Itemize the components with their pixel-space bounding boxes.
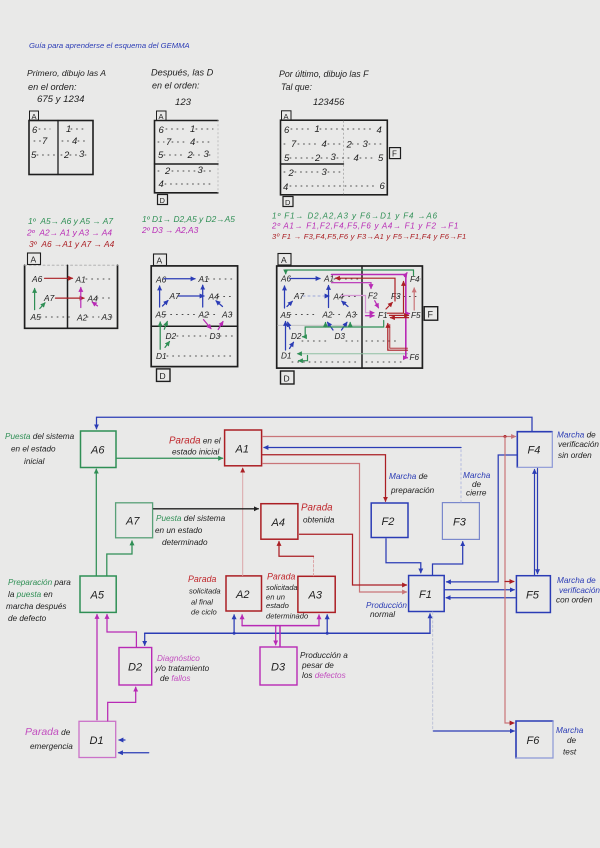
- wire red A3 to A4 vertical (faint): [313, 556, 315, 576]
- mini3 red wire F6 to F1: [388, 324, 408, 351]
- wire red A1 to F1 (light): [263, 464, 407, 593]
- mini diagram F tag F: [424, 307, 438, 321]
- mini3 magenta wire A1 to F6 (long vertical): [332, 275, 408, 358]
- svg-text:en el estado: en el estado: [11, 445, 56, 454]
- svg-text:A3: A3: [308, 590, 323, 602]
- svg-text:F: F: [392, 149, 397, 158]
- svg-text:F4: F4: [410, 275, 420, 284]
- mini diagram D tag A: [154, 254, 167, 266]
- svg-text:2º A2→ A1 y A3 → A4: 2º A2→ A1 y A3 → A4: [26, 228, 112, 238]
- svg-text:4: 4: [190, 137, 195, 148]
- svg-text:A2: A2: [235, 589, 249, 601]
- svg-text:3: 3: [79, 149, 85, 160]
- box F1: [409, 576, 445, 612]
- svg-text:estado inicial: estado inicial: [172, 448, 220, 457]
- svg-text:6: 6: [32, 125, 38, 136]
- svg-text:A4: A4: [208, 292, 220, 302]
- svg-text:3: 3: [331, 152, 337, 163]
- wire green A5 to A7: [107, 541, 132, 576]
- svg-text:solicitada: solicitada: [266, 583, 298, 592]
- svg-text:2: 2: [346, 140, 353, 151]
- wire blue F4 to F5: [537, 469, 539, 574]
- svg-text:A2: A2: [322, 311, 333, 320]
- mini2 dots: [165, 279, 234, 356]
- mini3 magenta branch to F5: [406, 313, 410, 315]
- wire blue to F6: [434, 730, 515, 732]
- mini3 magenta wire A4 to F1 (light): [341, 296, 374, 313]
- mini3 blue arrow A5 to A7: [287, 301, 292, 306]
- wire blue F3 to A1 faint vertical: [460, 448, 462, 503]
- svg-text:Marcha: Marcha: [556, 726, 584, 735]
- box D1: [79, 721, 116, 757]
- svg-text:675 y 1234: 675 y 1234: [37, 94, 84, 105]
- wire green A5 to A6: [95, 469, 97, 575]
- svg-text:F: F: [428, 310, 434, 320]
- svg-text:D2: D2: [128, 662, 142, 674]
- svg-text:A: A: [32, 112, 37, 121]
- svg-text:estado: estado: [266, 601, 289, 610]
- svg-text:Marcha de: Marcha de: [557, 431, 596, 440]
- svg-text:1: 1: [315, 124, 320, 135]
- svg-text:4: 4: [354, 153, 359, 164]
- wire magenta D1 to D2: [108, 687, 136, 721]
- svg-text:Después, las D: Después, las D: [151, 68, 214, 78]
- mini diagram A tag: [28, 253, 41, 265]
- mini3 blue arrow A5 to A6: [284, 286, 286, 308]
- mini2 magenta arrow D3 to A3: [218, 322, 223, 330]
- svg-text:A6: A6: [31, 274, 43, 284]
- svg-text:Marcha: Marcha: [463, 471, 491, 480]
- svg-text:4: 4: [159, 179, 164, 190]
- svg-text:A3: A3: [345, 311, 356, 320]
- svg-text:cierre: cierre: [466, 489, 487, 498]
- svg-text:2: 2: [63, 150, 70, 161]
- mini3 red wire F6 to F1 double stroke: [390, 325, 408, 349]
- mini3 blue arrow D2 to A5: [288, 322, 290, 329]
- mini3 blue arrow D3 to A2: [328, 322, 334, 330]
- svg-text:4: 4: [283, 182, 288, 193]
- svg-text:1: 1: [190, 124, 195, 135]
- mini3 blue arrow A6 to A1: [290, 278, 320, 280]
- mini2 green arrow D1 to A5: [159, 322, 161, 349]
- mini3 green branch F1 to A3: [349, 323, 351, 328]
- svg-text:F1: F1: [419, 589, 432, 601]
- svg-text:A6: A6: [90, 445, 105, 457]
- mini3 blue arrow D3 to A3: [342, 322, 348, 330]
- svg-text:A: A: [284, 112, 289, 121]
- svg-text:D: D: [160, 371, 166, 381]
- wire red A4 to F1: [300, 534, 407, 585]
- svg-text:F3: F3: [453, 517, 467, 529]
- mini1 magenta arrow A3 to A4: [92, 302, 97, 306]
- svg-text:1º F1→ D2,A2,A3 y F6→D1 y F4 →: 1º F1→ D2,A2,A3 y F6→D1 y F4 →A6: [272, 212, 438, 221]
- box A5: [80, 576, 116, 612]
- svg-text:4: 4: [377, 125, 382, 136]
- svg-text:A2: A2: [198, 310, 210, 320]
- wire magenta into D3: [275, 626, 277, 645]
- wire blue bus to D2: [144, 633, 146, 645]
- wire black A7 to A4: [154, 508, 259, 510]
- mini3 magenta arrow F2 to F1: [375, 301, 379, 308]
- mini1 green arrow A5 to A6: [34, 289, 36, 310]
- svg-text:Marcha de: Marcha de: [557, 576, 596, 585]
- svg-text:2: 2: [314, 153, 321, 164]
- svg-text:6: 6: [380, 181, 386, 192]
- svg-text:de defecto: de defecto: [8, 614, 47, 623]
- box A6: [81, 431, 117, 468]
- wire blue bus to A3: [326, 615, 328, 633]
- svg-text:F6: F6: [527, 735, 541, 747]
- svg-text:A: A: [281, 255, 287, 265]
- svg-text:5: 5: [284, 153, 290, 164]
- number box 3 frame: [281, 120, 388, 195]
- svg-text:F2: F2: [382, 516, 395, 528]
- svg-text:F3: F3: [391, 292, 401, 301]
- mini2 blue arrow A7 to A4: [179, 295, 205, 297]
- svg-text:la puesta en: la puesta en: [8, 590, 53, 599]
- mini diagram D tag D: [157, 369, 171, 382]
- svg-text:normal: normal: [370, 610, 395, 619]
- svg-text:marcha después: marcha después: [6, 602, 67, 611]
- mini3 blue arrow D1 to A5: [285, 322, 287, 351]
- mini3 green hook to D1: [299, 356, 308, 361]
- mini2 green arrow D2 to A5: [164, 322, 167, 330]
- svg-text:A5: A5: [280, 311, 291, 320]
- wire blue lower bus horizontal: [145, 632, 430, 634]
- svg-text:D1: D1: [281, 352, 291, 361]
- svg-text:emergencia: emergencia: [30, 742, 73, 751]
- svg-text:5: 5: [158, 150, 164, 161]
- svg-text:D3: D3: [271, 662, 286, 674]
- svg-text:A7: A7: [293, 292, 304, 301]
- mini3 magenta short arrow to F1: [366, 315, 375, 317]
- svg-text:de ciclo: de ciclo: [191, 608, 217, 617]
- number box 1 divider: [57, 121, 59, 175]
- box F2: [371, 503, 408, 538]
- svg-text:en el orden:: en el orden:: [28, 82, 77, 92]
- svg-text:D3: D3: [210, 331, 221, 341]
- svg-text:7: 7: [291, 139, 297, 150]
- wire blue bus to F1: [429, 614, 431, 633]
- svg-text:A7: A7: [125, 516, 140, 528]
- wire red branch to F5: [505, 581, 514, 583]
- svg-text:A1: A1: [198, 274, 209, 284]
- mini3 blue arrow A7 to A4 (faint): [303, 295, 329, 297]
- svg-text:obtenida: obtenida: [303, 516, 335, 525]
- svg-text:D: D: [160, 196, 166, 205]
- svg-text:F1: F1: [378, 311, 388, 320]
- svg-text:D2: D2: [291, 332, 302, 341]
- mini3 blue arrow D1 to D2: [290, 342, 294, 348]
- mini3 red wire F5 to F4 (light): [413, 288, 415, 310]
- svg-text:2: 2: [187, 150, 194, 161]
- wire red A3 to A4: [279, 542, 314, 557]
- number box 2 tag A: [157, 111, 167, 121]
- mini1 dots: [40, 279, 114, 317]
- mini diagram F tag A: [278, 254, 291, 266]
- wire blue F2 to F1: [386, 539, 421, 573]
- svg-text:determinado: determinado: [266, 612, 308, 621]
- mini3 red arrow F1 to F3: [386, 303, 392, 310]
- box2 dot rows: [158, 129, 214, 184]
- mini3 magenta wire A1 to F2: [332, 283, 372, 289]
- svg-text:test: test: [563, 748, 577, 757]
- mini3 blue arrow A2 to A1: [328, 286, 330, 308]
- wire green A6 to A1: [117, 457, 223, 459]
- svg-text:Parada: Parada: [267, 572, 295, 582]
- svg-text:6: 6: [159, 125, 165, 136]
- mini1 red arrow A6 to A1: [45, 277, 73, 279]
- svg-text:A2: A2: [76, 313, 88, 323]
- svg-text:F2: F2: [368, 292, 378, 301]
- mini diagram F frame: [277, 266, 423, 368]
- mini3 faint row divider: [278, 324, 362, 326]
- svg-text:pesar de: pesar de: [301, 661, 334, 670]
- wire blue F3 to A1 horizontal: [264, 447, 461, 449]
- mini diagram A divider: [67, 265, 69, 328]
- mini3 magenta arrow tip near F4: [405, 273, 408, 277]
- wire magenta to A2: [241, 615, 243, 626]
- svg-text:Parada: Parada: [188, 574, 216, 584]
- wire blue stub into D1: [119, 739, 125, 741]
- svg-text:3: 3: [363, 139, 369, 150]
- wire blue F5 to F4: [534, 470, 536, 575]
- svg-text:F5: F5: [411, 311, 421, 320]
- wire magenta D2 to A5: [107, 615, 136, 647]
- mini3 blue arrow A3 to A4: [342, 301, 348, 306]
- wire faint F1 to F6 vertical: [432, 612, 434, 731]
- svg-text:D: D: [285, 198, 291, 207]
- svg-text:solicitada: solicitada: [189, 587, 221, 596]
- svg-text:7: 7: [42, 136, 48, 147]
- mini diagram F tag D: [281, 371, 295, 384]
- box A4: [261, 504, 298, 540]
- junction dot bus A2: [233, 632, 236, 635]
- svg-text:5: 5: [31, 150, 37, 161]
- svg-text:D2: D2: [166, 331, 177, 341]
- mini2 blue arrow A6 to A1: [164, 278, 195, 280]
- svg-text:A5: A5: [155, 310, 167, 320]
- wire red A2 to A1 (faint): [242, 468, 244, 575]
- mini diagram A frame: [25, 265, 118, 328]
- svg-text:determinado: determinado: [162, 538, 208, 547]
- svg-text:preparación: preparación: [390, 486, 435, 495]
- mini3 red wire F1 to F4: [388, 282, 404, 314]
- svg-text:2º D3 → A2,A3: 2º D3 → A2,A3: [141, 225, 199, 235]
- wire red A1 to F2: [263, 455, 386, 502]
- svg-text:3: 3: [198, 165, 204, 176]
- mini diagram D frame: [151, 266, 237, 367]
- svg-text:3º A6 →A1 y A7 → A4: 3º A6 →A1 y A7 → A4: [29, 239, 115, 249]
- svg-text:Marcha de: Marcha de: [389, 472, 428, 481]
- svg-text:Puesta del sistema: Puesta del sistema: [156, 514, 226, 523]
- svg-text:y/o tratamiento: y/o tratamiento: [154, 664, 210, 673]
- svg-text:A3: A3: [101, 312, 113, 322]
- mini3 dots: [290, 279, 420, 362]
- mini3 green wire F1 to D2: [303, 321, 384, 337]
- svg-text:Parada: Parada: [301, 503, 333, 514]
- svg-text:1º A5→ A6 y A5 → A7: 1º A5→ A6 y A5 → A7: [28, 216, 113, 226]
- svg-text:A4: A4: [271, 517, 285, 529]
- svg-text:Diagnóstico: Diagnóstico: [157, 654, 200, 663]
- svg-text:A: A: [31, 255, 37, 265]
- box D2: [119, 648, 152, 686]
- mini3 green wire F6 to D1 (faint): [298, 353, 408, 355]
- svg-text:3: 3: [322, 167, 328, 178]
- svg-text:F5: F5: [526, 590, 540, 602]
- mini3 green branch F1 to A2: [325, 323, 327, 328]
- svg-text:inicial: inicial: [24, 457, 45, 466]
- box A2: [226, 576, 262, 611]
- box3 dot rows: [284, 129, 383, 186]
- wire blue F4 to F1: [447, 455, 517, 582]
- box1 dot rows: [34, 129, 89, 155]
- box F4: [517, 432, 552, 468]
- wire magenta to A3: [318, 615, 320, 626]
- svg-text:Producción a: Producción a: [300, 651, 348, 660]
- mini3 green wire F4 to A6: [286, 270, 414, 276]
- mini2 magenta arrow A2 to D3: [204, 320, 212, 329]
- number box 3 partial divider: [281, 163, 344, 165]
- wire magenta D3 bus horizontal: [242, 625, 319, 627]
- svg-text:F6: F6: [410, 353, 420, 362]
- svg-text:Preparación para: Preparación para: [8, 578, 71, 587]
- svg-text:sin orden: sin orden: [558, 451, 592, 460]
- svg-text:Tal que:: Tal que:: [281, 82, 313, 92]
- svg-text:A: A: [159, 112, 164, 121]
- mini1 magenta arrow A2 to A1: [80, 288, 82, 308]
- svg-text:1: 1: [66, 124, 71, 135]
- number box 1 tag A: [30, 111, 39, 120]
- number box 3 tag D: [283, 197, 293, 207]
- svg-text:A4: A4: [333, 293, 344, 302]
- mini diagram D divider: [151, 325, 237, 327]
- wire red vertical to F6 (light): [505, 437, 514, 724]
- number box 2 divider: [155, 163, 219, 165]
- svg-text:A6: A6: [155, 275, 167, 285]
- box F5: [516, 576, 550, 613]
- svg-text:2: 2: [164, 166, 171, 177]
- svg-text:Parada en el: Parada en el: [169, 436, 221, 447]
- mini1 red arrow A7 to A4: [56, 297, 85, 299]
- svg-text:7: 7: [166, 137, 172, 148]
- number box 3 faint vertical divider: [343, 121, 345, 194]
- svg-text:A5: A5: [30, 312, 42, 322]
- svg-text:123456: 123456: [313, 96, 345, 107]
- svg-text:en el orden:: en el orden:: [152, 81, 200, 91]
- svg-text:D1: D1: [156, 351, 167, 361]
- svg-text:D3: D3: [335, 332, 346, 341]
- number box 2 frame: [155, 121, 219, 193]
- svg-text:A7: A7: [43, 293, 55, 303]
- wire magenta D3 up vertical: [279, 626, 281, 647]
- svg-text:6: 6: [284, 125, 290, 136]
- junction dot bus A3: [326, 632, 329, 635]
- wire magenta D1 to A5: [96, 615, 98, 720]
- box A7: [116, 503, 153, 538]
- svg-text:5: 5: [378, 153, 384, 164]
- svg-text:Primero, dibujo las A: Primero, dibujo las A: [27, 68, 106, 78]
- svg-text:Parada de: Parada de: [25, 726, 71, 738]
- box F3: [442, 503, 479, 540]
- box A3: [298, 576, 335, 612]
- svg-text:3: 3: [204, 149, 210, 160]
- svg-text:Producción: Producción: [366, 601, 407, 610]
- mini2 green arrow D1 to D2: [165, 342, 170, 348]
- svg-text:verificación: verificación: [559, 586, 600, 595]
- box D3: [260, 647, 297, 685]
- svg-text:A1: A1: [235, 444, 249, 456]
- svg-text:A5: A5: [90, 590, 105, 602]
- svg-text:D: D: [284, 374, 290, 384]
- wire red A1 to F4 (light): [263, 436, 516, 438]
- junction dot red: [504, 435, 507, 438]
- number box 1 frame: [29, 121, 93, 175]
- svg-text:en un estado: en un estado: [155, 526, 203, 535]
- svg-text:al final: al final: [191, 598, 213, 607]
- svg-text:2: 2: [288, 168, 295, 179]
- svg-text:4: 4: [72, 136, 77, 147]
- svg-text:1º D1→ D2,A5 y D2→A5: 1º D1→ D2,A5 y D2→A5: [142, 214, 235, 224]
- number box 2 tag D: [158, 195, 168, 205]
- box A1: [225, 430, 262, 466]
- svg-text:Puesta del sistema: Puesta del sistema: [5, 432, 75, 441]
- mini3 red arrow F1 to F5: [390, 314, 409, 316]
- number box 3 tag A: [282, 111, 292, 121]
- svg-text:Guía para aprenderse el esquem: Guía para aprenderse el esquema del GEMM…: [29, 41, 190, 50]
- svg-text:con orden: con orden: [556, 596, 593, 605]
- svg-text:F4: F4: [528, 445, 541, 457]
- wire blue F4 to A6 (top line): [97, 417, 533, 431]
- svg-text:de fallos: de fallos: [160, 674, 191, 683]
- svg-text:verificación: verificación: [558, 440, 599, 449]
- svg-text:3º F1 → F3,F4,F5,F6 y F3→A1 y: 3º F1 → F3,F4,F5,F6 y F3→A1 y F5→F1,F4 y…: [272, 232, 466, 241]
- wire blue F1 to F3: [433, 542, 463, 575]
- mini1 green arrow A5 to A7: [40, 303, 45, 309]
- svg-text:123: 123: [175, 97, 192, 108]
- svg-text:A1: A1: [75, 275, 86, 285]
- number box 3 tag F: [390, 148, 401, 159]
- svg-text:Por último, dibujo las F: Por último, dibujo las F: [279, 69, 369, 79]
- wire blue arrow into D1: [119, 752, 149, 754]
- mini2 blue arrow A2 to A1: [202, 285, 204, 307]
- mini2 blue arrow A5 to A6: [159, 286, 161, 307]
- svg-text:4: 4: [322, 139, 327, 150]
- mini2 blue arrow A3 to A4: [216, 301, 223, 307]
- svg-text:los defectos: los defectos: [302, 671, 346, 680]
- mini3 red arrow F5 to F1: [391, 317, 409, 319]
- wire blue F5 to F1: [446, 597, 515, 599]
- mini diagram F divider: [361, 266, 363, 368]
- mini2 blue arrow A5 to A7: [163, 301, 169, 307]
- svg-text:A: A: [157, 256, 163, 266]
- svg-text:de: de: [567, 736, 577, 745]
- wire blue F1 to F5: [445, 589, 514, 591]
- box F6: [516, 721, 553, 758]
- wire blue bus to A2: [233, 615, 235, 633]
- mini3 red wire F3 to A1: [336, 278, 396, 301]
- svg-text:2º A1→ F1,F2,F4,F5,F6 y A4→ F1: 2º A1→ F1,F2,F4,F5,F6 y A4→ F1 y F2 →F1: [271, 222, 459, 231]
- svg-text:D1: D1: [90, 735, 104, 747]
